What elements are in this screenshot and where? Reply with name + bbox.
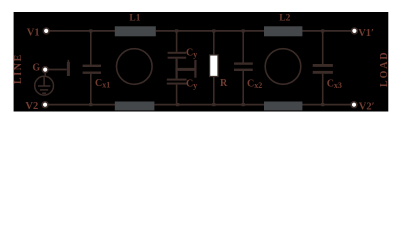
wire Cy bottom lead [176, 85, 178, 105]
capacitor Cx2 [234, 62, 253, 64]
svg-text:Cy: Cy [186, 47, 197, 59]
node junction bottom Cx3 [321, 103, 324, 106]
panel background [14, 12, 389, 112]
wire Cx2 bottom lead [242, 71, 244, 105]
inductor L1 winding top [115, 26, 156, 36]
inductor L1 winding bottom [115, 102, 155, 111]
ground (protective earth symbol) [35, 76, 54, 95]
capacitor Cy (bottom) [167, 79, 187, 81]
node junction bottom R [212, 103, 215, 106]
wire Cy middle vertical [176, 59, 178, 79]
inductor L2 core circle [265, 49, 301, 85]
svg-text:L1: L1 [129, 14, 140, 24]
node junction bottom Cy [176, 103, 179, 106]
node junction top R [212, 29, 215, 32]
wire Cy top lead [176, 31, 178, 52]
wire Cx1 top lead [90, 31, 92, 65]
inductor L2 winding bottom [264, 102, 302, 111]
svg-text:V2: V2 [25, 101, 38, 112]
wire Cx3 bottom lead [322, 74, 324, 105]
svg-text:LOAD: LOAD [379, 51, 390, 88]
svg-text:Cx2: Cx2 [247, 79, 262, 91]
wire Cx2 top lead [242, 31, 244, 63]
svg-text:L2: L2 [279, 14, 290, 24]
node junction top Cx3 [321, 29, 324, 32]
wire R top lead [213, 31, 215, 55]
terminal G [42, 67, 48, 73]
node junction top Cy [175, 29, 178, 32]
terminal V2' [351, 102, 357, 108]
wire midpoint rung [175, 68, 196, 71]
terminal V1 [43, 28, 49, 34]
terminal V1' [352, 28, 358, 34]
wire Cx3 top lead [322, 31, 324, 64]
svg-text:V1: V1 [27, 28, 40, 39]
svg-text:G: G [32, 62, 40, 73]
svg-text:Cy: Cy [186, 79, 197, 91]
capacitor Cy (top) [168, 52, 187, 54]
wire Cx1 bottom lead [90, 74, 92, 105]
svg-text:LINE: LINE [13, 53, 24, 84]
wire bottom line left segment [48, 104, 115, 106]
node junction top Cx2 [242, 29, 245, 32]
capacitor Cx1 [83, 65, 101, 67]
wire stub above G plate [67, 60, 69, 62]
wire bottom line right segment [154, 104, 351, 106]
node junction bottom Cx1 [89, 103, 92, 106]
wire G to earth [44, 73, 46, 77]
node junction top Cx1 [89, 29, 92, 32]
wire top line right segment [156, 30, 352, 32]
resistor R [210, 55, 218, 77]
svg-text:Cx1: Cx1 [95, 78, 110, 90]
inductor L1 core circle [117, 49, 153, 85]
inductor L2 winding top [264, 26, 302, 36]
svg-text:Cx3: Cx3 [327, 79, 342, 91]
wire top line left segment [49, 30, 115, 32]
capacitor plate at G [67, 62, 70, 76]
node junction bottom Cx2 [242, 103, 245, 106]
wire R bottom lead [213, 77, 215, 105]
terminal V2 [42, 102, 48, 108]
wire midpoint right vertical [194, 60, 196, 78]
wire G lead [48, 69, 66, 71]
capacitor Cx3 [313, 64, 333, 67]
svg-text:V2′: V2′ [359, 102, 375, 113]
svg-text:R: R [220, 78, 228, 89]
svg-text:V1′: V1′ [358, 28, 374, 39]
